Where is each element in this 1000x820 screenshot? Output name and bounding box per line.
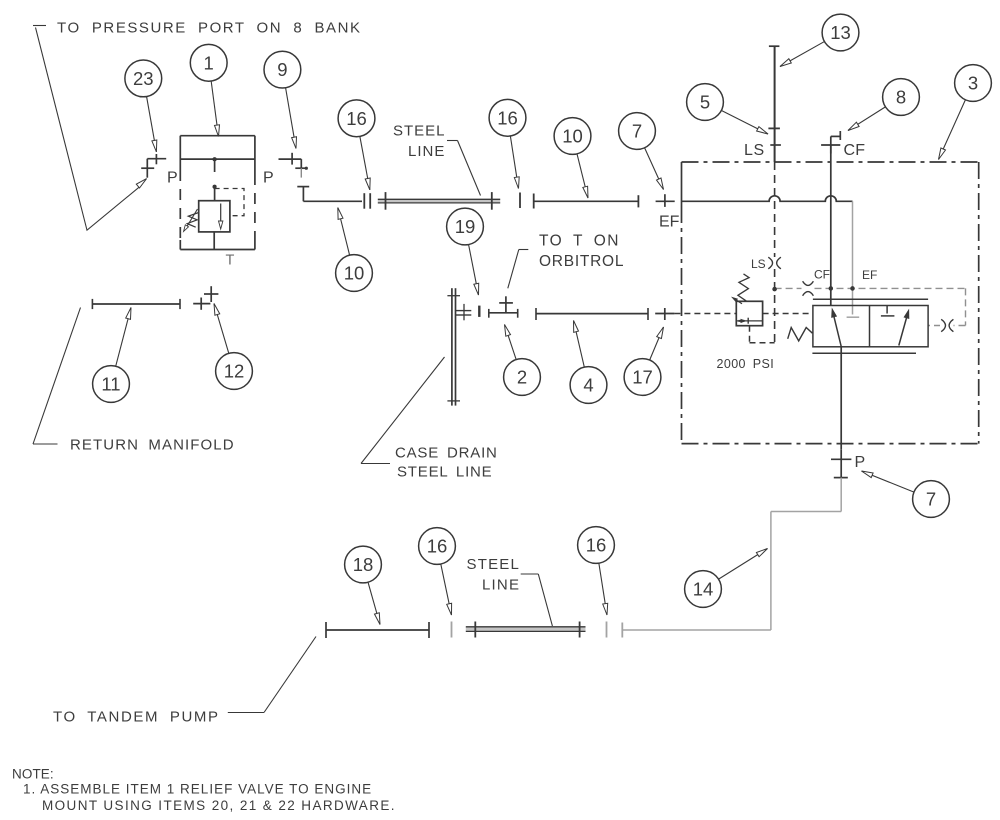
svg-text:NOTE:: NOTE:	[12, 767, 54, 782]
svg-text:16: 16	[427, 536, 448, 557]
svg-text:LINE: LINE	[408, 143, 445, 160]
svg-text:18: 18	[353, 554, 374, 575]
svg-text:9: 9	[277, 59, 287, 80]
svg-text:2: 2	[517, 367, 527, 388]
svg-text:STEEL: STEEL	[467, 556, 521, 573]
svg-text:P: P	[167, 170, 178, 187]
svg-text:1: 1	[204, 52, 214, 73]
svg-text:5: 5	[700, 92, 710, 113]
svg-text:3: 3	[968, 73, 978, 94]
svg-text:14: 14	[693, 579, 714, 600]
svg-text:16: 16	[346, 108, 367, 129]
svg-text:RETURN MANIFOLD: RETURN MANIFOLD	[70, 437, 235, 454]
svg-text:CASE DRAIN: CASE DRAIN	[395, 445, 498, 462]
svg-text:LS: LS	[751, 257, 766, 271]
svg-text:EF: EF	[659, 213, 680, 230]
svg-text:23: 23	[133, 68, 154, 89]
svg-text:8: 8	[896, 87, 906, 108]
svg-text:P: P	[855, 454, 866, 471]
svg-text:LS: LS	[744, 142, 765, 159]
svg-text:EF: EF	[862, 268, 877, 282]
svg-text:12: 12	[224, 361, 245, 382]
svg-text:STEEL LINE: STEEL LINE	[397, 464, 492, 481]
svg-text:TO PRESSURE PORT ON 8 BANK: TO PRESSURE PORT ON 8 BANK	[57, 20, 362, 37]
svg-text:T: T	[226, 253, 235, 269]
svg-text:CF: CF	[844, 142, 866, 159]
svg-text:10: 10	[344, 263, 365, 284]
svg-text:2000 PSI: 2000 PSI	[717, 357, 775, 371]
svg-text:CF: CF	[814, 268, 830, 282]
svg-text:7: 7	[926, 489, 936, 510]
svg-text:MOUNT USING ITEMS 20, 21: MOUNT USING ITEMS 20, 21 & 22 HARDWARE.	[42, 798, 396, 813]
svg-text:7: 7	[632, 121, 642, 142]
svg-text:4: 4	[583, 375, 593, 396]
svg-text:P: P	[263, 170, 274, 187]
svg-text:16: 16	[497, 107, 518, 128]
svg-text:ORBITROL: ORBITROL	[539, 253, 624, 270]
svg-text:TO T ON: TO T ON	[539, 232, 620, 249]
svg-text:11: 11	[101, 374, 120, 395]
svg-text:STEEL: STEEL	[393, 123, 446, 140]
svg-text:TO TANDEM PUMP: TO TANDEM PUMP	[53, 709, 220, 726]
svg-text:LINE: LINE	[482, 577, 520, 594]
svg-text:17: 17	[632, 367, 653, 388]
svg-text:16: 16	[586, 535, 607, 556]
svg-text:19: 19	[455, 216, 476, 237]
svg-text:1. ASSEMBLE ITEM 1 RELIEF: 1. ASSEMBLE ITEM 1 RELIEF VALVE TO ENGIN…	[23, 781, 372, 796]
svg-text:10: 10	[562, 126, 583, 147]
svg-text:13: 13	[830, 22, 851, 43]
